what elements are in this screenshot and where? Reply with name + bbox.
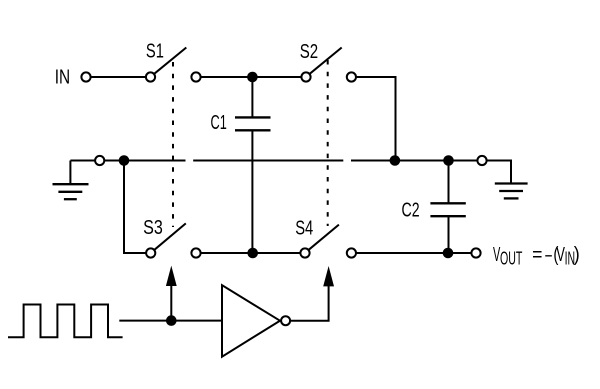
wire S1 throw to node A [201,76,253,78]
switch S3 pole circle [146,248,155,257]
switch S4 throw circle [347,248,356,257]
junction output node (bottom of C2) [443,248,454,259]
terminal mid-right (open circle) [477,156,486,165]
switch S2 throw circle [347,72,356,81]
wire clock input to inverter [119,320,222,322]
junction node B (bottom of C1) [247,248,258,259]
wire mid rail left segment [70,160,95,162]
svg-text:S2: S2 [300,41,318,63]
switch S1 pole circle [146,72,155,81]
svg-text:C1: C1 [211,112,227,134]
wire C2 bottom lead [448,216,450,253]
junction mid rail at C2 top [443,155,454,166]
wire C2 top lead [448,161,450,204]
inverter U1 triangle [222,285,280,357]
svg-text:–: – [545,244,552,266]
switch S4 arm [309,225,339,250]
arrow control to S4 [323,266,334,286]
ground left stem [69,161,71,184]
wire mid rail right segment [351,160,478,162]
capacitor C2 plates [430,203,465,216]
wire S2 throw to corner then down to mid rail [356,77,395,161]
svg-text:OUT: OUT [500,248,522,268]
svg-text:=: = [532,244,542,266]
terminal IN (open circle) [81,72,90,81]
switch S1 throw circle [191,72,200,81]
junction node A (top of C1) [247,72,258,83]
wire node B to S4 [253,252,301,254]
junction mid rail at S2 branch [390,155,401,166]
svg-text:S3: S3 [143,217,163,239]
wire node A to S2 [252,76,301,78]
wire mid-left junction down and over to S3 [124,161,146,254]
svg-text:C2: C2 [402,200,420,222]
switch S2 arm [310,48,342,74]
arrow control to S3 [166,266,177,321]
wire C1 top lead [251,77,253,117]
wire IN to S1 [91,76,146,78]
switch S2 pole circle [301,72,310,81]
svg-text:S1: S1 [146,41,164,63]
switch S3 throw circle [191,248,200,257]
terminal VOUT (open circle) [471,248,480,257]
dashed clock control line phase 2 [327,60,329,226]
wire C1 bottom lead down to bottom rail [251,130,253,253]
junction clock node [166,315,177,326]
node VOUT label [493,244,580,268]
clock square wave symbol [8,305,123,338]
wire inverter output to S4 arrow corner [290,285,328,321]
junction mid-left node [119,155,130,166]
wire mid rail center segment [193,160,343,162]
wire mid-right to right ground [487,161,511,183]
wire output node to VOUT terminal [448,252,471,254]
switch S4 pole circle [300,248,309,257]
dashed clock control line phase 1 [172,62,174,227]
svg-text:S4: S4 [295,217,313,239]
ground left symbol [53,184,89,199]
svg-text:IN: IN [55,67,70,89]
switch S1 arm [154,48,186,74]
svg-text:): ) [574,244,580,266]
wire mid rail segment to first break [105,160,186,162]
wire S3 throw to node B [201,252,253,254]
wire S4 throw to output node [356,252,448,254]
capacitor C1 plates [235,117,271,130]
switch S3 arm [154,223,185,249]
inverter U1 output bubble [281,316,290,325]
terminal mid-left (open circle) [95,156,104,165]
ground right symbol [495,184,528,199]
